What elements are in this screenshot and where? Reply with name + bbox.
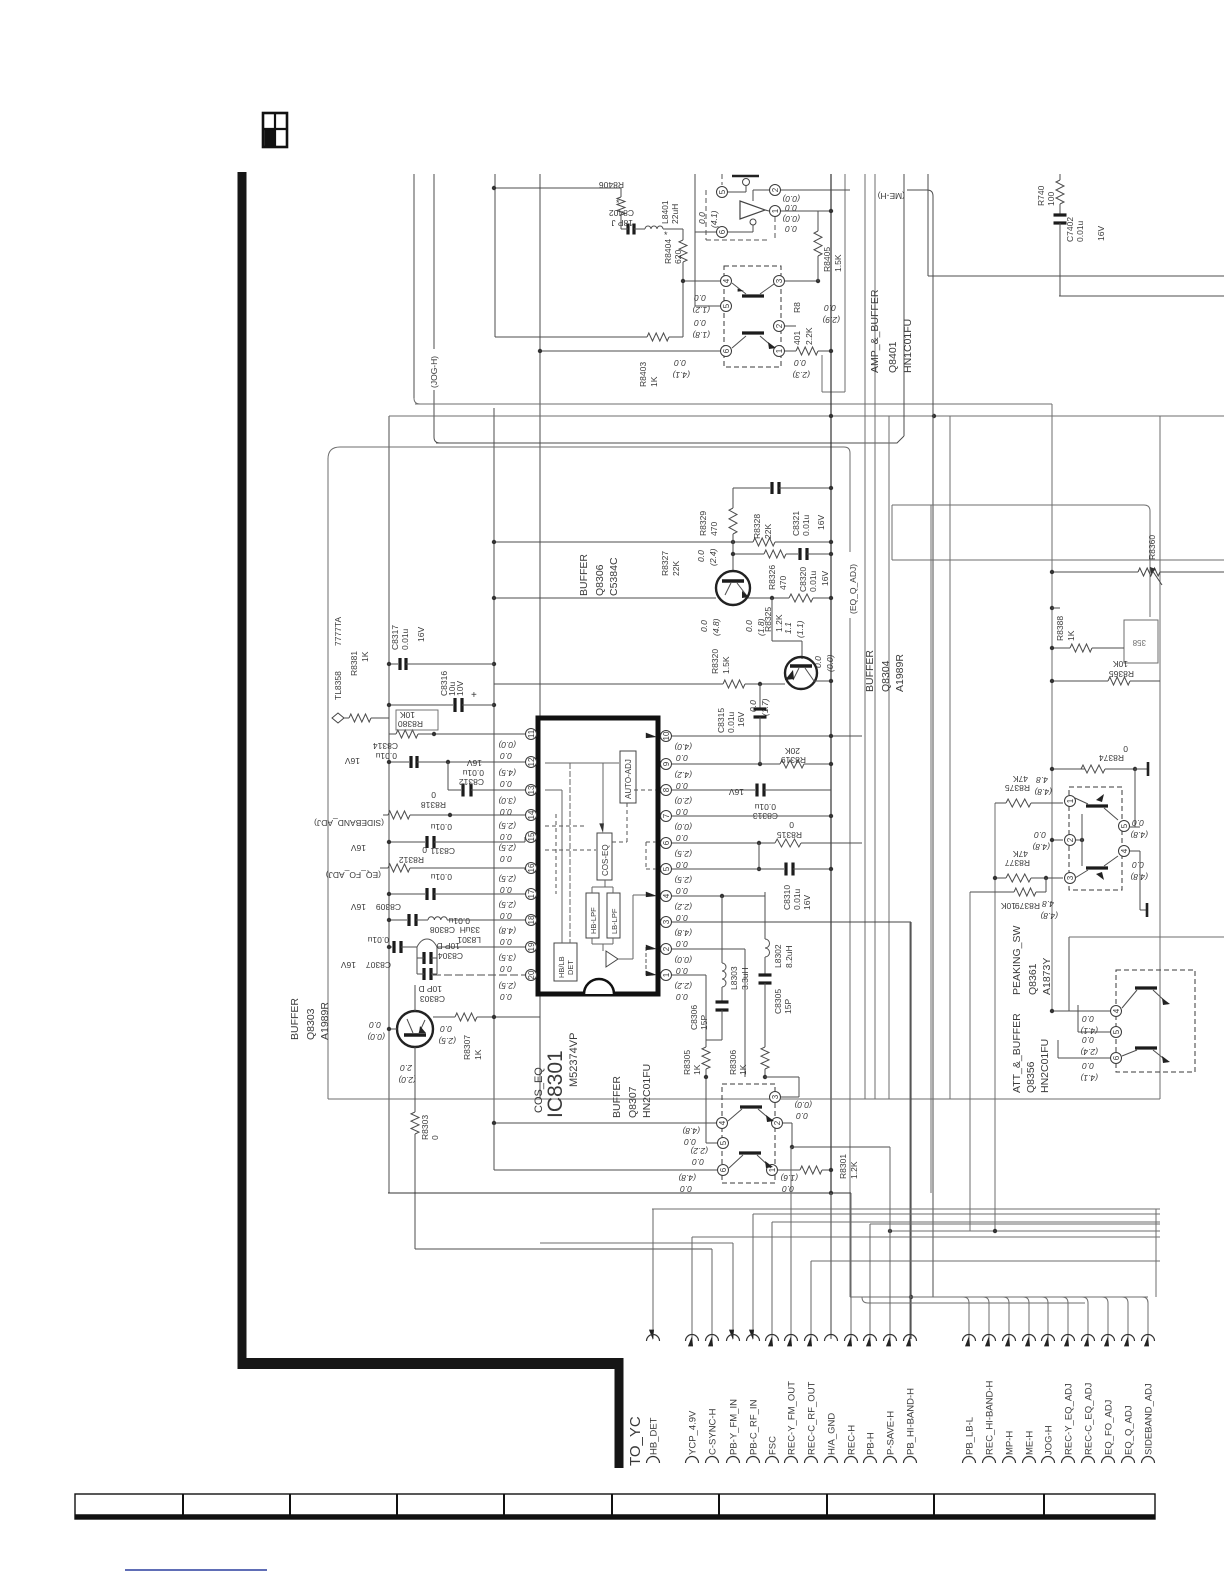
capacitor C8304 10P [416,947,418,958]
svg-text:10P D: 10P D [419,984,442,994]
svg-text:LB-LPF: LB-LPF [610,908,619,934]
wire right vertical x875 [874,174,876,1099]
pin 5 of IC8301 [661,864,672,875]
wire vertical x695 from top [694,174,696,306]
svg-text:PB-C_RF_IN: PB-C_RF_IN [749,1399,760,1455]
wire pin4 Q8356 left [1052,1010,1110,1012]
IC internal HB-LPF box [586,893,599,938]
svg-text:1K: 1K [649,376,659,387]
svg-text:620: 620 [673,250,683,264]
wire horizontal y447 (EQ_Q run) [328,447,850,459]
wire vertical x850 (EQ_Q_ADJ down) [849,453,851,552]
svg-text:Q8356: Q8356 [1025,1061,1037,1093]
wire vertical x1052 [1051,404,1053,1011]
wire x722 pin4 chain down [721,896,723,963]
svg-text:0: 0 [430,1135,440,1140]
wire pin5 Q8362 right [1130,826,1140,828]
transistor Q8306 [716,571,750,605]
svg-text:1K: 1K [473,1049,483,1060]
wire pin19 y947 with C8307 C8304 [389,946,392,948]
pin 9 of IC8301 [661,759,672,770]
resistor R8303 0 [411,1112,419,1134]
svg-text:REC-Y_FM_OUT: REC-Y_FM_OUT [787,1381,798,1455]
wire Q8303 base left [389,1028,397,1030]
svg-text:EQ_Q_ADJ: EQ_Q_ADJ [1124,1405,1135,1455]
svg-text:(2.5): (2.5) [498,900,516,910]
resistor R8405 1.5K [817,211,819,231]
wire pin4 y896 [672,895,765,897]
svg-text:0.0: 0.0 [674,358,686,368]
capacitor C8303 10P [416,958,418,974]
svg-text:16V: 16V [341,960,356,970]
svg-text:(EQ_FO_ADJ): (EQ_FO_ADJ) [326,870,381,880]
svg-text:0: 0 [422,845,427,855]
svg-text:(4.1): (4.1) [672,370,690,380]
wire pin5 to input [728,191,746,193]
svg-text:0.01u: 0.01u [792,888,802,910]
svg-text:18P J: 18P J [611,218,633,228]
wire R8303 run y1249 to C-SYNC-H [415,1248,712,1250]
wire YCP run y1237 [692,1236,1160,1238]
wire PB-H run y1224 [870,1223,1160,1225]
svg-text:*: * [616,198,620,208]
svg-text:22K: 22K [671,561,681,576]
svg-text:C8308: C8308 [430,925,455,935]
transistor-array Q8362 dashed box [1069,787,1122,890]
svg-text:*: * [664,230,668,240]
svg-text:3: 3 [771,1094,780,1099]
transistor-array Q8401 lower dashed box [724,266,781,367]
pin 3 of Q8362 [1065,873,1076,884]
svg-text:JOG-H: JOG-H [1044,1425,1055,1455]
svg-text:5: 5 [1112,1029,1121,1034]
svg-text:16V: 16V [816,515,826,530]
svg-text:ME-H: ME-H [1025,1431,1036,1455]
svg-text:TO_YC: TO_YC [627,1416,644,1466]
svg-text:2: 2 [662,946,671,951]
svg-text:0.01u: 0.01u [462,768,484,778]
svg-text:1: 1 [771,208,780,213]
svg-text:2: 2 [775,323,784,328]
svg-text:4: 4 [722,278,731,283]
svg-text:10V: 10V [455,681,465,696]
pin 5b of Q8401 [721,301,732,312]
svg-text:HN1C01FU: HN1C01FU [902,319,914,373]
wire pin13 y790 with C8312 [448,789,461,791]
svg-text:1: 1 [768,1167,777,1172]
wire HB_DET run y1209 [652,1208,1160,1210]
pin 20 of IC8301 [526,970,537,981]
svg-text:0.0: 0.0 [1132,860,1144,870]
svg-text:IC8301: IC8301 [544,1050,567,1118]
wire vertical bus x414 [413,174,415,398]
wire pin2 net with (ME-H) [753,189,769,191]
resistor R8401 2.2K [796,347,818,355]
svg-text:C8304: C8304 [438,951,463,961]
svg-text:C8306: C8306 [689,1005,699,1030]
IC internal buffer triangle [606,951,618,967]
svg-text:3.3uH: 3.3uH [740,967,750,990]
svg-text:(0.0): (0.0) [674,955,692,965]
pin 4 of IC8301 [661,891,672,902]
svg-text:0.0: 0.0 [684,1137,696,1147]
wire y1193 dark [388,1192,851,1194]
svg-text:R8315: R8315 [777,830,802,840]
svg-text:ATT_&_BUFFER: ATT_&_BUFFER [1011,1013,1023,1093]
svg-text:0.0: 0.0 [824,303,836,313]
wire main dark bus x831 [830,174,832,1193]
svg-text:5: 5 [719,1140,728,1145]
svg-text:(4.8): (4.8) [682,1126,700,1136]
svg-text:16V: 16V [729,787,744,797]
transistor-array Q8356 dashed box [1116,970,1195,1072]
transistor Q8307-b [739,1151,761,1154]
wire corner x414 into y404 [414,398,420,404]
svg-text:0.0: 0.0 [676,753,688,763]
wire x765 to Q8307 pin3 [765,1076,799,1078]
svg-text:R8: R8 [792,302,802,313]
svg-text:2: 2 [771,187,780,192]
wire pin1 from op-amp [765,210,769,211]
wire x448 link 762-790 [447,762,449,790]
connector terminal C-SYNC-H [706,1249,719,1463]
wire pin12 y762 with C8314 [389,761,409,763]
svg-text:L8401: L8401 [660,200,670,224]
svg-text:R740: R740 [1036,185,1046,206]
pin 4 of Q8356 [1111,1006,1122,1017]
capacitor C8316 10u 10V electrolytic [453,698,456,712]
svg-text:(0.0): (0.0) [782,214,800,224]
svg-text:1K: 1K [692,1064,702,1075]
connector terminal REC-Y_EQ_ADJ [1062,1297,1075,1463]
wire pin20 y975 [433,974,525,976]
wire horizontal y296 [1059,295,1224,297]
wire right vertical x995 [994,803,996,1231]
wire vertical bus x540 [539,174,541,351]
svg-text:(4.1): (4.1) [1080,1026,1098,1036]
svg-text:(2.5): (2.5) [438,1036,456,1046]
resistor R8379 10K [970,891,1014,893]
wire Q8303 emitter right R8307 [433,1016,455,1018]
svg-text:470: 470 [709,522,719,536]
svg-text:R8307: R8307 [462,1035,472,1060]
transistor Q8401-a [742,294,764,297]
svg-text:HB-LPF: HB-LPF [589,907,598,934]
pin 3 of IC8301 [661,917,672,928]
pin 6 of IC8301 [661,838,672,849]
wire pin6 Q8307 left [494,1169,717,1171]
wire Q8306 emitter right y598 [748,597,789,599]
wire horizontal y276 [928,275,1224,277]
wire horizontal y443 (JOG-H run) [436,436,904,443]
wire right vertical x889 [888,416,890,1099]
svg-text:15P: 15P [783,999,793,1014]
page corner mark (checkered square) [263,113,287,147]
svg-text:3: 3 [775,278,784,283]
svg-text:BUFFER: BUFFER [611,1076,623,1118]
wire x765 L8302 chain [764,892,766,939]
svg-text:(3.0): (3.0) [498,796,516,806]
svg-text:0.0: 0.0 [500,751,512,761]
svg-text:3: 3 [662,919,671,924]
svg-text:C8314: C8314 [373,741,398,751]
svg-text:8: 8 [662,787,671,792]
svg-text:0: 0 [431,790,436,800]
pin 12 of IC8301 [526,757,537,768]
svg-text:(4.8): (4.8) [1040,911,1058,921]
svg-text:0: 0 [1123,744,1128,754]
inductor L8303 3.3uH [722,963,726,987]
svg-text:1K: 1K [1066,630,1076,641]
transistor Q8304 [785,657,817,689]
pin 6 of Q8356 [1111,1053,1122,1064]
svg-text:(2.5): (2.5) [498,821,516,831]
svg-text:C8320: C8320 [798,567,808,592]
svg-text:1: 1 [1066,798,1075,803]
wire x760 C8315 chain [759,684,761,708]
capacitor C8315 0.01u [754,707,767,710]
wire C8321 net y488 [733,487,770,489]
title-block table at page bottom [75,1494,1155,1519]
resistor R8375 47K [995,802,1006,804]
wire pin16 y868 with R8312 [380,867,388,869]
resistor R8306 1K [761,1047,769,1069]
resistor R8377 47K [995,877,1006,879]
transistor Q8362-a [1086,804,1108,807]
resistor R8301 1.2K [800,1166,822,1174]
wire P-SAVE run y1231 [890,1230,1160,1232]
wire y560 box bottom [892,559,1224,561]
svg-text:(2.2): (2.2) [690,1146,708,1156]
svg-text:11: 11 [527,729,536,738]
svg-text:(4.1): (4.1) [1080,1073,1098,1083]
svg-text:4: 4 [662,893,671,898]
svg-text:1.5K: 1.5K [721,656,731,674]
wire right edge vertical x1160 [1159,416,1161,1099]
svg-text:4: 4 [718,1120,727,1125]
svg-text:C7402: C7402 [1065,217,1075,242]
svg-text:A1989R: A1989R [894,654,906,692]
svg-text:16: 16 [527,863,536,872]
wire y337 with R8403 [495,336,647,338]
wire pin2 internal base link [1076,839,1082,841]
connector terminal REC_HI-BAND-H [983,1297,996,1463]
svg-text:(2.5): (2.5) [498,981,516,991]
svg-text:(4.8): (4.8) [678,1173,696,1183]
connector terminal HB_DET [647,1209,660,1463]
wire PB-C run y1214 [753,1213,1160,1215]
svg-text:C8311: C8311 [430,846,455,856]
resistor R8326 470 [764,550,786,558]
resistor R8374 0 [1081,765,1105,773]
svg-text:1.2K: 1.2K [849,1161,859,1179]
wire pin5 Q8356 left [1078,1031,1110,1033]
svg-text:0.0: 0.0 [697,212,707,224]
svg-text:R8301: R8301 [838,1154,848,1179]
pin 5 of Q8362 [1119,821,1130,832]
svg-text:(1.8): (1.8) [692,330,710,340]
svg-text:Q8303: Q8303 [305,1008,317,1040]
wire Q8304 emitter right [814,680,831,682]
wire pin2b right [785,325,796,327]
svg-text:1.5K: 1.5K [833,254,843,272]
pin 1 of Q8307 [767,1165,778,1176]
svg-text:(2.2): (2.2) [674,981,692,991]
inductor L8302 8.2uH [765,939,770,957]
wire pin6b left long [540,350,720,352]
svg-text:(2.5): (2.5) [498,874,516,884]
pin 14 of IC8301 [526,810,537,821]
svg-text:PB_HI-BAND-H: PB_HI-BAND-H [906,1388,917,1455]
connector terminal EQ_FO_ADJ [1102,1297,1115,1463]
svg-text:19: 19 [527,942,536,951]
svg-text:C5384C: C5384C [608,557,620,596]
svg-text:HN2C01FU: HN2C01FU [641,1064,653,1118]
wire Q8306 collector left y598 [494,597,716,599]
svg-text:(2.5): (2.5) [498,843,516,853]
svg-text:R8403: R8403 [638,362,648,387]
connector terminal PB_HI-BAND-H [904,922,917,1463]
svg-text:2: 2 [1066,837,1075,842]
svg-text:5: 5 [722,303,731,308]
wire pin10 y736 [672,735,862,737]
pin 4 of Q8307 [717,1118,728,1129]
svg-text:6: 6 [722,348,731,353]
wire right bundle y1297 [850,1296,1148,1298]
svg-text:Q8361: Q8361 [1027,963,1039,995]
svg-text:BUFFER: BUFFER [864,650,876,692]
wire R8388 net y648 [1052,647,1070,649]
svg-text:0.0: 0.0 [369,1020,381,1030]
svg-text:R8305: R8305 [682,1050,692,1075]
wire horizontal y416 [389,415,1224,417]
wire pin8 y790 with C8313 [672,789,755,791]
svg-text:0.01u: 0.01u [430,822,452,832]
svg-text:Q8306: Q8306 [594,564,606,596]
svg-text:(SIDEBAND_ADJ): (SIDEBAND_ADJ) [314,818,384,828]
svg-text:C8303: C8303 [420,994,445,1004]
svg-text:(4.8): (4.8) [1130,830,1148,840]
svg-text:R8380: R8380 [398,719,423,729]
wire pin11 y734 with R8380 [389,733,396,735]
svg-text:358: 358 [1132,638,1146,647]
svg-text:0.0: 0.0 [500,854,512,864]
svg-text:8.2uH: 8.2uH [784,945,794,968]
svg-text:SIDEBAND_ADJ: SIDEBAND_ADJ [1144,1383,1155,1455]
svg-text:16V: 16V [416,627,426,642]
transistor-array Q8401 upper dashed box [705,190,707,240]
svg-text:0.0: 0.0 [744,620,754,632]
IC internal COS-EQ box [597,833,612,880]
svg-text:1: 1 [775,348,784,353]
connector terminal ME-H [1023,1297,1036,1463]
svg-text:16V: 16V [467,758,482,768]
pin 1b of Q8401 [774,346,785,357]
svg-text:0.0: 0.0 [676,886,688,896]
svg-text:(4.1): (4.1) [709,210,719,228]
svg-text:REC-Y_EQ_ADJ: REC-Y_EQ_ADJ [1064,1383,1075,1455]
svg-text:1K: 1K [360,651,370,662]
svg-text:16V: 16V [820,571,830,586]
svg-text:0.0: 0.0 [500,885,512,895]
resistor R8325 zigzag [789,594,813,602]
wire vertical bus x389 [388,416,390,1193]
wire R8320 net y684 [494,683,723,685]
svg-text:0.0: 0.0 [500,832,512,842]
testpoint diamond [332,713,344,723]
svg-text:0.01u: 0.01u [808,570,818,592]
svg-text:PB-H: PB-H [866,1432,877,1455]
wire pin4 Q8307 left [494,1122,716,1124]
svg-text:10K: 10K [400,710,415,720]
svg-text:15P: 15P [699,1015,709,1030]
svg-text:(2.4): (2.4) [1080,1047,1098,1057]
small box right [1124,620,1158,663]
connector terminal PB_LB-L [963,1297,976,1463]
wire x683 vertical [682,229,684,240]
thick page border (bottom horizontal bar) [238,1358,624,1369]
svg-text:R8404: R8404 [663,239,673,264]
svg-text:0.0: 0.0 [1034,830,1046,840]
svg-text:17: 17 [527,889,536,898]
svg-text:MP-H: MP-H [1005,1431,1016,1455]
pin 10 of IC8301 [661,731,672,742]
svg-text:0.0: 0.0 [794,358,806,368]
pin 4 of Q8401 [721,276,732,287]
svg-text:4: 4 [1112,1008,1121,1013]
wire R8374 net y769 [1052,768,1085,770]
svg-text:0.01u: 0.01u [448,916,470,926]
svg-text:(4.0): (4.0) [674,742,692,752]
svg-text:(4.8): (4.8) [1032,842,1050,852]
wire pin14 y815 with R8318 [383,814,388,816]
resistor R740 100 [1059,174,1061,180]
resistor R8320 1.5K [723,680,745,688]
wire y705 with C8316 [389,704,453,706]
svg-text:16V: 16V [351,902,366,912]
resistor R8388 1K [1070,644,1092,652]
svg-text:(JOG-H): (JOG-H) [429,356,439,388]
wire pin15 y842 with C8311 [389,841,425,843]
svg-text:(2.3): (2.3) [792,370,810,380]
svg-text:0.0: 0.0 [500,964,512,974]
svg-text:(2.2): (2.2) [674,902,692,912]
transistor Q8356-b [1135,1046,1157,1049]
resistor R8305 1K [702,1047,710,1069]
svg-text:(1.6): (1.6) [780,1173,798,1183]
pin 5 of Q8307 [718,1138,729,1149]
svg-text:0: 0 [789,820,794,830]
svg-text:R8327: R8327 [660,551,670,576]
wire right vertical x845 [844,174,846,392]
wire top-right vertical x928 [927,174,929,276]
svg-text:10K: 10K [1001,901,1016,911]
connector terminal SIDEBAND_ADJ [1142,1297,1155,1463]
connector terminal PB-C_RF_IN [747,1214,760,1463]
wire pin2 y949 [672,948,745,950]
wire vertical x904 (JOG-H up) [903,174,905,436]
wire y554 with R8326 and C8320 [733,553,764,555]
svg-text:R8320: R8320 [710,649,720,674]
pin 1 of Q8362 [1065,796,1076,807]
wire x851 down to REC-H [850,1193,852,1339]
svg-text:R8377: R8377 [1005,858,1030,868]
pin 19 of IC8301 [526,942,537,953]
svg-text:PB-Y_FM_IN: PB-Y_FM_IN [729,1399,740,1455]
svg-text:14: 14 [527,810,536,819]
svg-text:(2.4): (2.4) [708,548,718,566]
svg-text:0.01u: 0.01u [801,514,811,536]
